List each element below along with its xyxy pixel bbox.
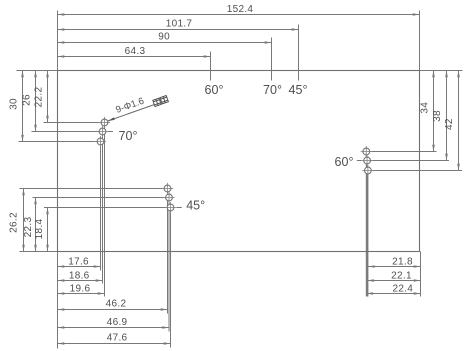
svg-text:101.7: 101.7 [166,19,193,30]
svg-text:46.2: 46.2 [106,299,127,310]
svg-text:45°: 45° [186,199,205,213]
svg-text:19.6: 19.6 [70,284,91,295]
svg-text:18.6: 18.6 [69,270,90,281]
svg-text:38: 38 [432,110,443,122]
svg-text:22.3: 22.3 [23,217,34,238]
svg-text:60°: 60° [335,155,354,169]
svg-text:46.9: 46.9 [107,317,128,328]
svg-text:22.2: 22.2 [34,87,45,108]
svg-text:22.4: 22.4 [392,284,413,295]
svg-text:26.2: 26.2 [9,212,20,233]
svg-text:47.6: 47.6 [107,333,128,344]
svg-text:18.4: 18.4 [34,219,45,240]
svg-text:64.3: 64.3 [125,46,146,57]
svg-text:22.1: 22.1 [391,270,412,281]
svg-text:42: 42 [444,118,455,130]
svg-text:17.6: 17.6 [68,257,89,268]
svg-text:21.8: 21.8 [392,257,413,268]
svg-text:152.4: 152.4 [227,4,254,15]
svg-text:45°: 45° [289,83,308,97]
svg-text:34: 34 [420,102,431,114]
svg-text:70°: 70° [119,129,138,143]
svg-text:90: 90 [158,32,170,43]
svg-text:60°: 60° [205,83,224,97]
svg-text:70°: 70° [263,83,282,97]
svg-text:26: 26 [22,94,33,106]
svg-text:30: 30 [9,98,20,110]
